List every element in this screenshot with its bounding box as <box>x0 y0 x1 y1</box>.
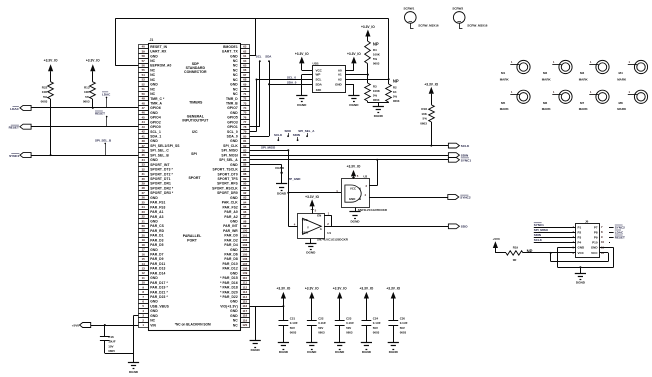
svg-text:PAR_D1: PAR_D1 <box>150 234 163 238</box>
svg-text:84: 84 <box>243 153 247 157</box>
wire R13 bottom down to LDAC net <box>92 99 94 109</box>
svg-text:41: 41 <box>142 134 146 138</box>
capacitor C24 0.1uF decoupling <box>362 316 381 342</box>
svg-text:5%: 5% <box>393 94 398 98</box>
svg-text:DGND: DGND <box>362 350 372 354</box>
svg-text:SPORT_DT1: SPORT_DT1 <box>150 177 170 181</box>
svg-text:87: 87 <box>243 167 247 171</box>
svg-text:R4: R4 <box>373 48 377 52</box>
svg-text:55: 55 <box>142 68 146 72</box>
capacitor C16 10UF bulk cap on +5V0 <box>100 325 116 353</box>
J1 function group labels <box>175 62 211 327</box>
svg-text:10UF: 10UF <box>108 340 116 344</box>
svg-text:NC: NC <box>150 73 155 77</box>
svg-text:64: 64 <box>243 59 247 63</box>
svg-text:PAR_D10: PAR_D10 <box>222 262 237 266</box>
svg-text:5%: 5% <box>423 117 428 121</box>
power +3.3V_IO arrow above C30 <box>386 287 400 321</box>
svg-text:GND: GND <box>150 300 158 304</box>
svg-text:GPIO0: GPIO0 <box>150 125 161 129</box>
svg-text:VIN: VIN <box>150 323 156 327</box>
svg-text:SDIN: SDIN <box>293 133 300 137</box>
wire J6 P8 to LDAC <box>609 230 624 234</box>
svg-text:SDIN: SDIN <box>461 154 469 158</box>
svg-text:15: 15 <box>142 257 146 261</box>
svg-text:DGND: DGND <box>129 370 139 374</box>
svg-text:VCC: VCC <box>316 68 323 72</box>
svg-text:35: 35 <box>142 153 146 157</box>
svg-text:C16: C16 <box>108 335 114 339</box>
svg-text:117: 117 <box>242 309 247 313</box>
wire VIO(+3.3V) from J1 to C21 <box>250 305 285 307</box>
svg-text:SPI_SEL_C: SPI_SEL_C <box>150 149 169 153</box>
svg-text:SPORT: SPORT <box>188 176 201 180</box>
svg-text:GND: GND <box>230 300 238 304</box>
wire J6 P10 stub <box>609 242 610 244</box>
svg-text:94: 94 <box>243 200 247 204</box>
svg-text:56: 56 <box>142 64 146 68</box>
svg-text:DGND: DGND <box>297 103 307 107</box>
svg-text:SCL: SCL <box>316 78 322 82</box>
svg-text:GND: GND <box>150 83 158 87</box>
svg-text:95: 95 <box>243 205 247 209</box>
svg-text:SPORT_DR0: SPORT_DR0 <box>217 191 238 195</box>
svg-text:SDA: SDA <box>316 82 323 86</box>
svg-text:GND: GND <box>150 248 158 252</box>
power +3.3V_IO arrow above R18 <box>424 82 438 105</box>
svg-text:A2: A2 <box>338 78 342 82</box>
svg-text:CONNECTOR: CONNECTOR <box>184 70 207 74</box>
svg-text:75: 75 <box>243 111 247 115</box>
svg-text:85: 85 <box>243 158 247 162</box>
svg-text:DGND: DGND <box>277 191 287 195</box>
svg-text:SPI_SEL1/SPI_SS: SPI_SEL1/SPI_SS <box>150 144 180 148</box>
svg-text:MARK: MARK <box>617 107 627 111</box>
svg-text:32: 32 <box>142 167 146 171</box>
svg-text:111: 111 <box>243 281 248 285</box>
svg-text:32K: 32K <box>316 88 322 92</box>
svg-text:PAR_D6: PAR_D6 <box>224 253 237 257</box>
ground DGND below C22 <box>306 343 317 355</box>
wire EEPROM_A0 net from J1 left pin over the top to R2 <box>115 19 389 80</box>
svg-text:13: 13 <box>142 267 146 271</box>
svg-text:MARK: MARK <box>542 77 552 81</box>
svg-text:M6: M6 <box>543 101 547 105</box>
wire SPI_SEL_A / SYNC1 net <box>250 159 449 161</box>
svg-text:PAR_D3: PAR_D3 <box>150 238 163 242</box>
svg-text:R22: R22 <box>42 85 48 89</box>
node SCLK net label <box>274 133 283 141</box>
svg-text:P2: P2 <box>578 230 582 234</box>
svg-text:SPI_CLK: SPI_CLK <box>223 144 238 148</box>
node SCL net label <box>256 54 262 58</box>
resistor R4 100K NP <box>365 41 381 83</box>
svg-text:SDA_0: SDA_0 <box>287 80 297 84</box>
svg-text:GND: GND <box>230 248 238 252</box>
svg-text:SDO: SDO <box>461 225 468 229</box>
wire R22 bottom down to SYNC1 net <box>50 99 52 156</box>
svg-text:12: 12 <box>142 271 146 275</box>
wire J6 P7 to SYNC2 <box>609 225 625 229</box>
svg-text:NC: NC <box>233 73 238 77</box>
svg-text:GND: GND <box>230 139 238 143</box>
svg-text:VCC: VCC <box>302 218 309 222</box>
svg-text:WP: WP <box>316 73 321 77</box>
svg-text:PAR_A3: PAR_A3 <box>150 215 163 219</box>
svg-text:SPI_SEL_A: SPI_SEL_A <box>219 158 238 162</box>
svg-text:NP: NP <box>373 41 379 46</box>
svg-text:34: 34 <box>142 158 146 162</box>
svg-text:P9: P9 <box>594 235 598 239</box>
wire SPI_MISO down to U1 input <box>287 149 297 226</box>
svg-text:DGND: DGND <box>389 350 399 354</box>
svg-text:SPI_MISO: SPI_MISO <box>534 228 549 232</box>
svg-text:M1: M1 <box>501 71 505 75</box>
svg-text:PAR_FS2: PAR_FS2 <box>223 205 238 209</box>
svg-text:25: 25 <box>142 200 146 204</box>
port RESET input connector <box>9 124 32 129</box>
svg-text:SYNC1: SYNC1 <box>534 223 544 227</box>
svg-text:44: 44 <box>142 120 146 124</box>
svg-text:RESET: RESET <box>615 235 625 239</box>
svg-text:SPORT_DR3 *: SPORT_DR3 * <box>150 191 174 195</box>
svg-text:GND: GND <box>578 246 586 250</box>
svg-text:11: 11 <box>142 276 145 280</box>
svg-text:B: B <box>359 197 361 201</box>
svg-text:U1B: U1B <box>313 62 320 66</box>
svg-text:DGND: DGND <box>350 219 360 223</box>
power +3.3V_IO arrow at EEPROM VCC <box>295 52 312 71</box>
wire LDAC net to J1 <box>31 107 138 109</box>
svg-text:10: 10 <box>601 240 605 244</box>
wire +5V0 to J1 VIN <box>91 324 139 326</box>
svg-text:GND: GND <box>150 314 158 318</box>
wire J1 right GND pin up to top net <box>250 19 256 56</box>
svg-text:50V: 50V <box>346 326 351 330</box>
svg-text:46: 46 <box>142 111 146 115</box>
svg-text:NC: NC <box>150 59 155 63</box>
svg-text:NC: NC <box>150 319 155 323</box>
wire J6 P9 to RESET <box>609 235 625 239</box>
svg-text:39: 39 <box>142 49 146 53</box>
svg-text:NC: NC <box>233 319 238 323</box>
svg-text:NC: NC <box>233 78 238 82</box>
svg-text:PAR_D13: PAR_D13 <box>150 267 165 271</box>
svg-text:GND: GND <box>230 309 238 313</box>
op-amp U1 buffer SN74LVC1G125 <box>298 208 349 241</box>
wire SPI_SEL_A down to U2 pin 2 <box>369 159 378 186</box>
ground DGND below C21 <box>278 343 289 355</box>
svg-text:VCC: VCC <box>591 251 598 255</box>
svg-text:17: 17 <box>142 248 146 252</box>
svg-text:C22: C22 <box>318 316 324 320</box>
svg-text:102: 102 <box>242 238 247 242</box>
svg-text:U1: U1 <box>327 231 331 235</box>
svg-text:72: 72 <box>243 97 247 101</box>
svg-text:GND: GND <box>150 196 158 200</box>
svg-text:TMR_B: TMR_B <box>226 102 238 106</box>
svg-text:NC: NC <box>233 64 238 68</box>
svg-text:PAR_D11: PAR_D11 <box>150 262 165 266</box>
svg-text:* PAR_D20: * PAR_D20 <box>220 290 238 294</box>
svg-text:MARK: MARK <box>617 77 627 81</box>
svg-text:PAR_FS3: PAR_FS3 <box>150 205 165 209</box>
svg-text:0603: 0603 <box>41 100 48 104</box>
svg-text:M5: M5 <box>501 101 505 105</box>
svg-text:23: 23 <box>142 210 146 214</box>
wire EEPROM WP to ground <box>302 75 313 96</box>
svg-text:50V: 50V <box>290 326 295 330</box>
svg-text:5%: 5% <box>85 95 90 99</box>
svg-text:66: 66 <box>243 68 247 72</box>
power +3.3V_IO arrow above C23 <box>333 287 347 321</box>
svg-text:104: 104 <box>242 248 247 252</box>
svg-text:NC: NC <box>150 68 155 72</box>
svg-text:+5V0: +5V0 <box>72 323 80 327</box>
svg-text:16: 16 <box>142 252 146 256</box>
svg-text:99: 99 <box>243 224 247 228</box>
wire EEPROM A2 to R2 top <box>345 78 390 80</box>
svg-text:70: 70 <box>243 87 247 91</box>
wire SPI_MISO to J6 P2 <box>534 228 576 232</box>
svg-text:0.1UF: 0.1UF <box>346 321 354 325</box>
svg-text:EN: EN <box>317 213 321 217</box>
wire SDIN to J6 P3 <box>534 233 576 237</box>
svg-text:GPIO4: GPIO4 <box>150 116 161 120</box>
svg-text:62: 62 <box>243 49 247 53</box>
svg-text:26: 26 <box>142 196 146 200</box>
wire SCL_0 branch down to J1 pin 79 <box>250 79 258 132</box>
ground DGND below R3 R2 <box>373 103 384 118</box>
svg-text:83: 83 <box>243 149 247 153</box>
svg-text:42: 42 <box>142 130 146 134</box>
svg-text:105: 105 <box>242 252 247 256</box>
svg-text:PAR_FS1: PAR_FS1 <box>150 201 165 205</box>
svg-text:DGND: DGND <box>335 350 345 354</box>
svg-text:PAR_D5: PAR_D5 <box>150 243 163 247</box>
resistor R2 1K NP to ground <box>386 79 400 103</box>
svg-text:108: 108 <box>242 267 247 271</box>
wire SCL net down to J1 pin 78 <box>250 60 261 126</box>
svg-text:GPIO7: GPIO7 <box>227 106 238 110</box>
svg-text:89: 89 <box>243 177 247 181</box>
svg-text:SPORT_RFS: SPORT_RFS <box>217 182 238 186</box>
svg-text:49: 49 <box>142 97 146 101</box>
power +3.3V_IO arrow above R22 <box>44 59 58 82</box>
svg-text:103: 103 <box>242 243 247 247</box>
svg-text:106: 106 <box>242 257 247 261</box>
svg-text:19: 19 <box>142 238 146 242</box>
svg-text:R2: R2 <box>393 85 397 89</box>
svg-text:GPIO1: GPIO1 <box>227 125 238 129</box>
EEPROM U1B 32K I2C memory <box>313 62 346 93</box>
wire J6 GND pins loop to DGND <box>558 248 614 274</box>
node RESET net label <box>95 111 107 127</box>
svg-text:SDA_1: SDA_1 <box>150 135 161 139</box>
fiducial mark M4 <box>617 60 647 81</box>
svg-text:MARK: MARK <box>579 77 589 81</box>
svg-text:110: 110 <box>242 276 247 280</box>
svg-text:* PAR_D22: * PAR_D22 <box>220 295 238 299</box>
svg-text:30: 30 <box>142 177 146 181</box>
screw SCRW2 mounting hole <box>452 6 487 28</box>
svg-text:33: 33 <box>142 163 146 167</box>
svg-text:LDAC: LDAC <box>615 230 624 234</box>
svg-text:SDIN: SDIN <box>534 233 541 237</box>
svg-text:63: 63 <box>243 45 247 49</box>
svg-text:RESET: RESET <box>95 111 105 115</box>
wire EEPROM A1 to R4/R3 junction <box>345 74 369 76</box>
wire R19 to J6 VCC pins loop <box>523 252 609 262</box>
svg-text:SN74LVC1G125DCKR: SN74LVC1G125DCKR <box>317 237 349 241</box>
svg-text:+3.3V_IO: +3.3V_IO <box>347 52 361 56</box>
svg-text:+3.3V_IO: +3.3V_IO <box>44 59 58 63</box>
port +5V0 power input <box>72 323 91 328</box>
svg-text:59: 59 <box>142 229 146 233</box>
svg-text:109: 109 <box>242 271 247 275</box>
svg-text:100K: 100K <box>373 89 381 93</box>
svg-text:I2C: I2C <box>192 130 198 134</box>
power +3.3V_IO arrow above R4 <box>361 25 375 41</box>
node LDAC net label <box>102 92 111 108</box>
svg-text:PAR_D14: PAR_D14 <box>150 271 165 275</box>
svg-text:0603: 0603 <box>373 62 380 66</box>
svg-text:UART_RX: UART_RX <box>150 50 167 54</box>
svg-text:65: 65 <box>243 64 247 68</box>
svg-text:PAR_D9: PAR_D9 <box>150 257 163 261</box>
svg-text:0.1UF: 0.1UF <box>318 321 326 325</box>
ground DGND at TP_GND <box>276 184 287 196</box>
svg-text:GND: GND <box>150 276 158 280</box>
svg-text:GND: GND <box>302 230 308 234</box>
wire J1 left GND pin down to DGND <box>134 316 139 363</box>
svg-text:TMR_C *: TMR_C * <box>150 97 165 101</box>
node SDA net label <box>265 54 272 58</box>
svg-text:10K: 10K <box>421 112 427 116</box>
J1 pin boxes and pin numbers, right side pins 61-120 <box>241 45 250 328</box>
svg-text:116: 116 <box>242 304 247 308</box>
svg-text:A0: A0 <box>338 68 342 72</box>
svg-text:+3.3V_IO: +3.3V_IO <box>333 287 347 291</box>
wire U1 output to SDO port <box>324 222 448 227</box>
port SYNC1 input connector <box>9 153 31 158</box>
svg-text:SYNC1: SYNC1 <box>9 154 20 158</box>
svg-text:21: 21 <box>142 219 146 223</box>
svg-text:NC: NC <box>233 59 238 63</box>
svg-text:SPORT_DR1: SPORT_DR1 <box>150 182 171 186</box>
svg-text:0603: 0603 <box>318 331 325 335</box>
power +3.3V_IO arrow at EEPROM A0 <box>347 52 361 64</box>
svg-text:C23: C23 <box>346 316 352 320</box>
svg-text:53: 53 <box>142 78 146 82</box>
svg-text:50: 50 <box>142 92 146 96</box>
svg-text:+3.3V_IO: +3.3V_IO <box>359 287 373 291</box>
svg-text:PAR_D23 *: PAR_D23 * <box>150 295 168 299</box>
svg-text:68: 68 <box>243 78 247 82</box>
power +3.3V_IO arrow at U1 VCC <box>305 195 319 214</box>
svg-text:P3: P3 <box>578 235 582 239</box>
svg-text:TMR_A: TMR_A <box>150 102 162 106</box>
svg-text:PAR_D17 *: PAR_D17 * <box>150 281 168 285</box>
svg-text:80: 80 <box>243 134 247 138</box>
svg-text:MARK: MARK <box>500 107 510 111</box>
svg-text:PAR_D2: PAR_D2 <box>224 238 237 242</box>
svg-text:DGND: DGND <box>576 281 586 285</box>
svg-text:0603: 0603 <box>400 331 407 335</box>
svg-text:GND: GND <box>230 314 238 318</box>
svg-text:SCLK: SCLK <box>274 133 283 137</box>
svg-text:29: 29 <box>142 182 146 186</box>
resistor R13 10K pull-up on LDAC <box>83 82 95 104</box>
svg-text:0.1UF: 0.1UF <box>290 321 298 325</box>
svg-text:SPI_MOSI: SPI_MOSI <box>221 153 237 157</box>
connector J6 header <box>572 219 604 257</box>
svg-text:MARK: MARK <box>542 107 552 111</box>
svg-text:R13: R13 <box>84 85 90 89</box>
svg-text:22: 22 <box>142 215 146 219</box>
svg-text:81: 81 <box>243 139 247 143</box>
fiducial mark M7 <box>579 90 609 111</box>
power +3.3V_IO arrow above C22 <box>305 287 319 321</box>
svg-text:10K: 10K <box>42 90 48 94</box>
wire SDA_0 to EEPROM SDA <box>269 80 312 84</box>
svg-text:114: 114 <box>242 295 247 299</box>
svg-text:GND: GND <box>230 54 238 58</box>
svg-text:47: 47 <box>142 106 146 110</box>
svg-text:GND: GND <box>335 82 343 86</box>
svg-text:5%: 5% <box>373 94 378 98</box>
wire J1 GND pin to TP_GND test point <box>250 165 302 184</box>
svg-text:SPORT_RSCLK: SPORT_RSCLK <box>212 186 238 190</box>
svg-text:GND: GND <box>150 139 158 143</box>
wire SYNC1 / SPI_SEL_B net to J1 <box>31 155 138 157</box>
svg-text:NC: NC <box>150 78 155 82</box>
svg-text:57: 57 <box>142 59 146 63</box>
svg-text:+3.3V_IO: +3.3V_IO <box>347 165 361 169</box>
svg-text:115: 115 <box>242 300 247 304</box>
svg-text:USB_VBUS: USB_VBUS <box>150 304 169 308</box>
svg-text:DGND: DGND <box>251 348 261 352</box>
wire SDA net down to J1 pin 80 <box>250 60 270 136</box>
svg-text:C21: C21 <box>290 316 296 320</box>
J1 right pin name labels <box>212 45 238 327</box>
svg-text:* PAR_D18: * PAR_D18 <box>220 286 238 290</box>
svg-text:PAR_CLK: PAR_CLK <box>222 201 239 205</box>
svg-text:DGND: DGND <box>307 350 317 354</box>
svg-text:GND: GND <box>230 111 238 115</box>
svg-text:P7: P7 <box>594 225 598 229</box>
wire down to DGND below J1 right side <box>255 306 257 340</box>
svg-text:69: 69 <box>243 82 247 86</box>
svg-text:54: 54 <box>142 73 146 77</box>
svg-text:88: 88 <box>243 172 247 176</box>
resistor R18 10K pull-up on SCLK <box>420 105 434 125</box>
svg-text:U2: U2 <box>363 174 367 178</box>
svg-text:UART_TX: UART_TX <box>222 50 239 54</box>
svg-text:LDAC: LDAC <box>10 107 19 111</box>
svg-text:+3.3V_IO: +3.3V_IO <box>424 82 438 86</box>
svg-text:101: 101 <box>242 233 247 237</box>
svg-text:SCRW_M3X16: SCRW_M3X16 <box>467 23 488 27</box>
svg-text:61: 61 <box>243 54 247 58</box>
wire R18 bottom to SCLK line <box>430 122 432 147</box>
svg-text:SPORT_TFS: SPORT_TFS <box>217 177 238 181</box>
svg-text:93: 93 <box>243 196 247 200</box>
svg-text:M7: M7 <box>580 101 584 105</box>
svg-text:20: 20 <box>142 233 146 237</box>
svg-text:10K: 10K <box>84 90 90 94</box>
resistor R3 100K to ground <box>365 83 381 103</box>
